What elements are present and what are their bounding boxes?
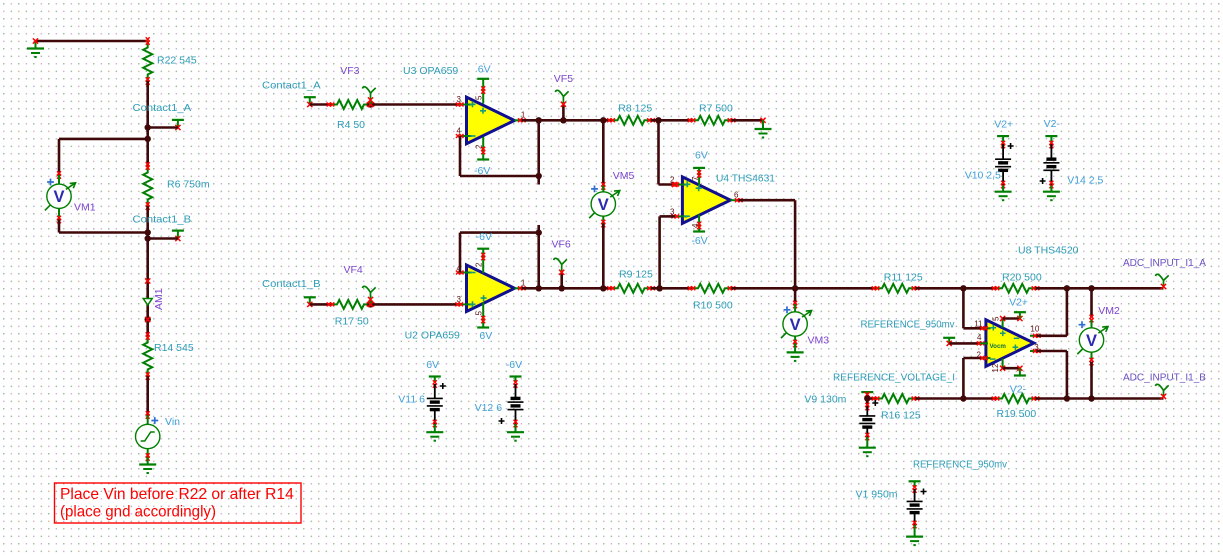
svg-text:VM5: VM5 [613,170,635,182]
svg-text:3: 3 [457,95,462,104]
svg-text:R7 500: R7 500 [699,103,733,115]
svg-text:V1 950m: V1 950m [856,489,898,501]
svg-text:V: V [790,316,801,334]
svg-text:ADC_INPUT_I1_B: ADC_INPUT_I1_B [1123,372,1206,384]
svg-text:Contact1_A: Contact1_A [133,102,192,114]
svg-text:4: 4 [457,127,462,136]
svg-text:V11 6: V11 6 [398,394,425,406]
svg-text:R14 545: R14 545 [154,342,194,354]
svg-text:5: 5 [475,95,484,100]
svg-text:R6 750m: R6 750m [167,179,210,191]
svg-text:R10 500: R10 500 [693,300,733,312]
svg-text:R19 500: R19 500 [997,408,1037,420]
svg-text:6: 6 [734,191,739,200]
svg-text:U4 THS4631: U4 THS4631 [716,173,775,185]
svg-text:6V: 6V [426,359,439,371]
svg-text:VM2: VM2 [1098,305,1120,317]
svg-text:R4 50: R4 50 [337,119,365,131]
svg-text:VM3: VM3 [808,335,830,347]
svg-text:1: 1 [521,111,526,120]
svg-text:R16 125: R16 125 [881,410,921,422]
svg-text:U2 OPA659: U2 OPA659 [405,330,460,342]
svg-text:-6V: -6V [691,235,707,247]
svg-text:Vocm: Vocm [990,343,1007,350]
svg-text:-6V: -6V [476,231,492,243]
svg-text:VF5: VF5 [554,73,573,85]
svg-text:AM1: AM1 [153,288,165,310]
svg-text:REFERENCE_950mv: REFERENCE_950mv [913,459,1008,471]
svg-text:VF6: VF6 [552,239,571,251]
svg-text:V2-: V2- [1010,384,1027,396]
svg-text:10: 10 [1030,325,1039,334]
svg-text:Place Vin before R22 or after: Place Vin before R22 or after R14 [60,486,294,503]
svg-text:1: 1 [521,279,526,288]
svg-text:-6V: -6V [474,165,490,177]
svg-text:U8 THS4520: U8 THS4520 [1018,245,1079,257]
svg-text:4: 4 [977,333,982,342]
svg-text:ADC_INPUT_I1_A: ADC_INPUT_I1_A [1123,257,1206,269]
svg-text:R8 125: R8 125 [618,103,652,115]
svg-text:2: 2 [670,176,675,185]
svg-text:V2-: V2- [1044,118,1061,130]
svg-text:-6V: -6V [506,359,522,371]
svg-text:2: 2 [475,144,484,149]
svg-text:5: 5 [992,316,1001,321]
svg-text:V2+: V2+ [1009,296,1028,308]
svg-text:7: 7 [691,176,700,181]
svg-text:V: V [53,188,64,206]
svg-text:3: 3 [670,208,675,217]
svg-text:4: 4 [691,223,700,228]
svg-text:V10 2,5: V10 2,5 [965,170,1001,182]
svg-text:6V: 6V [478,64,491,76]
svg-text:3: 3 [1034,343,1039,352]
svg-text:3: 3 [457,295,462,304]
svg-text:V14 2,5: V14 2,5 [1067,175,1103,187]
svg-text:R22 545: R22 545 [157,55,197,67]
svg-text:R17 50: R17 50 [335,316,369,328]
svg-text:V: V [1086,332,1097,350]
svg-text:R20 500: R20 500 [1002,272,1042,284]
svg-text:VF3: VF3 [340,65,359,77]
svg-text:VM1: VM1 [74,202,96,214]
svg-text:U3 OPA659: U3 OPA659 [403,65,458,77]
svg-text:12: 12 [991,363,1000,372]
svg-text:V2+: V2+ [994,119,1013,131]
svg-text:5: 5 [475,311,484,316]
svg-text:6V: 6V [479,330,492,342]
svg-text:(place gnd accordingly): (place gnd accordingly) [60,504,216,521]
svg-text:2: 2 [475,262,484,267]
svg-text:V9 130m: V9 130m [804,394,846,406]
svg-text:Vin: Vin [165,416,180,428]
svg-text:11: 11 [974,320,983,329]
svg-text:VF4: VF4 [344,264,363,276]
svg-text:Contact1_B: Contact1_B [262,278,321,290]
svg-text:V12 6: V12 6 [475,402,503,414]
svg-text:2: 2 [977,351,982,360]
svg-text:R11 125: R11 125 [884,272,923,284]
svg-text:REFERENCE_VOLTAGE_I: REFERENCE_VOLTAGE_I [833,372,955,384]
svg-text:Contact1_A: Contact1_A [262,79,321,91]
svg-text:Contact1_B: Contact1_B [133,214,192,226]
svg-text:REFERENCE_950mv: REFERENCE_950mv [861,319,956,331]
svg-text:V: V [598,196,609,214]
svg-text:4: 4 [457,264,462,273]
svg-text:R9 125: R9 125 [619,269,653,281]
svg-text:6V: 6V [695,150,708,162]
